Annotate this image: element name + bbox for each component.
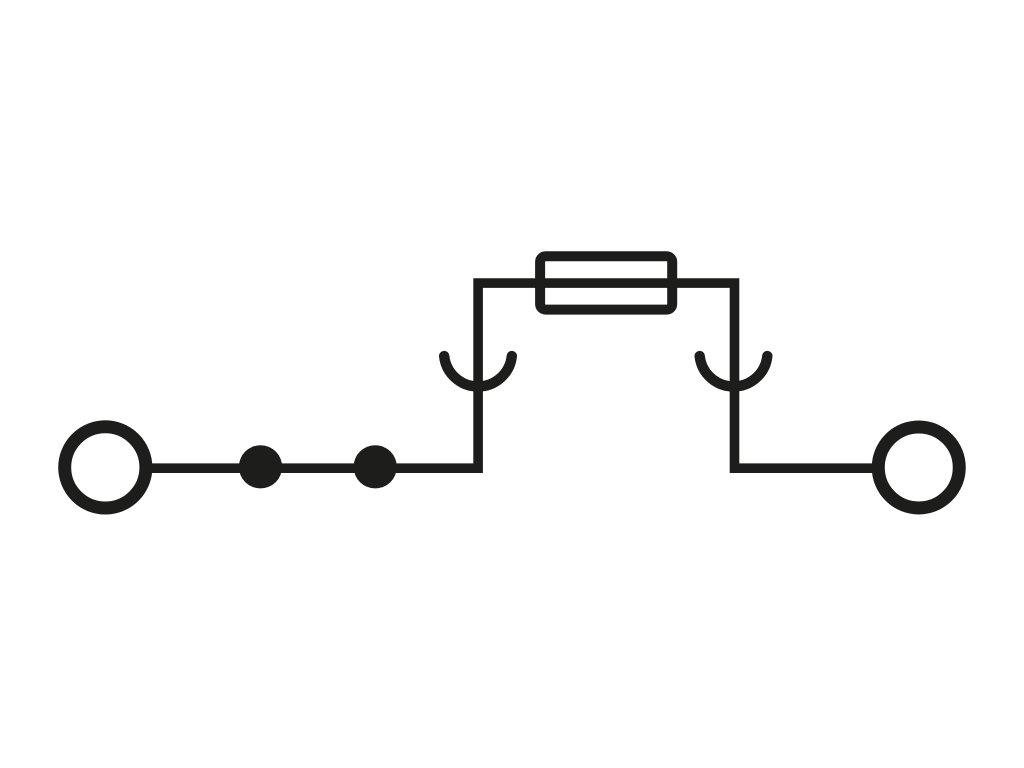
terminal circle right (clamp point): [878, 427, 959, 508]
wire (main conductor path: left feed, up, across fuse, down, right feed): [152, 283, 872, 468]
junction dot 1 (bridge shaft contact): [239, 445, 282, 488]
plug contact hook right (fuse holder socket): [700, 356, 768, 386]
plug contact hook left (fuse holder socket): [444, 356, 512, 386]
fuse F1 (cartridge symbol): [540, 256, 672, 309]
junction dot 2 (bridge shaft contact): [354, 445, 397, 488]
terminal circle left (clamp point): [65, 427, 146, 508]
